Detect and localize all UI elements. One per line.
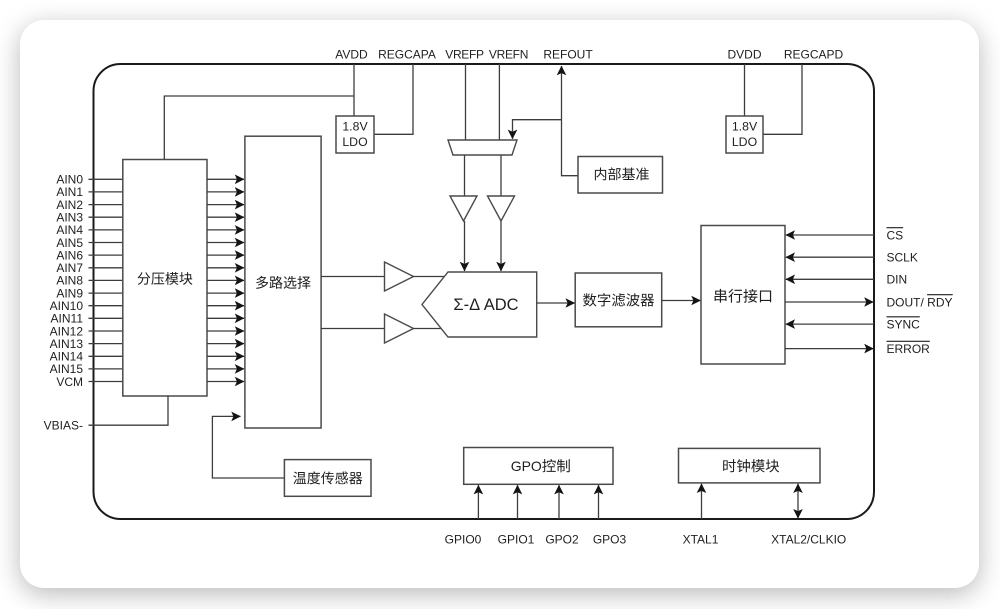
wire divider to mux AIN1 <box>207 191 244 193</box>
wire divider to mux AIN2 <box>207 204 244 206</box>
svg-text:DVDD: DVDD <box>727 48 761 62</box>
wire AIN11 input <box>89 317 123 319</box>
wire VBIAS- to divider <box>89 396 169 425</box>
wire buffer A to ADC <box>464 221 466 271</box>
op-amp buffer B (triangle right) <box>385 314 414 343</box>
wire divider to mux AIN9 <box>207 292 244 294</box>
label serial interface 串行接口 <box>715 289 772 303</box>
wire divider to mux AIN10 <box>207 305 244 307</box>
wire AIN7 input <box>89 267 123 269</box>
label GPO control 控制 <box>542 459 569 472</box>
op-amp buffer A (triangle right) <box>385 262 414 291</box>
wire trapezoid to buffer B <box>500 155 502 196</box>
wire mux to op-amp A <box>321 276 384 278</box>
label digital filter 数字滤波器 <box>583 293 654 306</box>
wire AIN3 input <box>89 216 123 218</box>
wire divider to mux AIN15 <box>207 368 244 370</box>
label clock module 时钟模块 <box>723 459 779 472</box>
overline for RDY <box>927 294 953 296</box>
wire trapezoid to buffer A <box>464 155 466 196</box>
wire ADC to digital filter <box>537 302 575 304</box>
wire VCM input <box>89 381 123 383</box>
internal reference block <box>578 157 663 194</box>
wire divider to mux AIN5 <box>207 242 244 244</box>
wire GPIO0 into GPO control <box>477 485 479 519</box>
wire serial interface to DOUT/RDY pin <box>785 301 873 303</box>
wire buffer B to ADC <box>500 221 502 271</box>
wire REFOUT from internal reference <box>562 66 579 176</box>
wire AIN14 input <box>89 355 123 357</box>
overline for SYNC <box>887 316 920 318</box>
svg-text:LDO: LDO <box>732 135 757 149</box>
svg-text:VREFN: VREFN <box>489 48 528 62</box>
wire reference to buffer (arrow down) <box>513 120 562 139</box>
svg-text:Σ-Δ ADC: Σ-Δ ADC <box>453 296 518 314</box>
label temperature sensor 温度传感器 <box>293 471 362 484</box>
svg-text:VBIAS-: VBIAS- <box>44 419 83 433</box>
wire XTAL2/CLKIO bidirectional <box>797 484 799 518</box>
wire AIN8 input <box>89 279 123 281</box>
chip outline <box>94 64 875 519</box>
temperature sensor block 温度传感器 <box>284 460 371 497</box>
wire AIN12 input <box>89 330 123 332</box>
wire divider to mux AIN8 <box>207 279 244 281</box>
svg-text:CS: CS <box>887 228 904 242</box>
svg-text:DOUT/ RDY: DOUT/ RDY <box>887 295 953 309</box>
wire AIN15 input <box>89 368 123 370</box>
svg-text:VREFP: VREFP <box>445 48 484 62</box>
wire divider to mux AIN6 <box>207 254 244 256</box>
svg-text:VCM: VCM <box>56 375 83 389</box>
wire SCLK pin into serial interface <box>786 256 874 258</box>
svg-text:GPIO0: GPIO0 <box>445 533 482 547</box>
reference mux trapezoid <box>448 140 517 155</box>
wire divider to mux AIN0 <box>207 178 244 180</box>
wire mux to op-amp B <box>321 328 384 330</box>
wire VREFP pin to ref buffer <box>465 64 467 140</box>
wire divider to mux AIN14 <box>207 355 244 357</box>
wire AIN5 input <box>89 242 123 244</box>
wire AIN13 input <box>89 343 123 345</box>
wire DIN pin into serial interface <box>786 278 874 280</box>
svg-text:1.8V: 1.8V <box>342 120 368 134</box>
svg-text:GPO2: GPO2 <box>545 533 579 547</box>
svg-text:LDO: LDO <box>342 135 367 149</box>
overline for CS <box>887 227 904 229</box>
wire AIN2 input <box>89 204 123 206</box>
reference buffer B (triangle down) <box>488 196 515 221</box>
wire divider to mux AIN7 <box>207 267 244 269</box>
wire divider to mux AIN12 <box>207 330 244 332</box>
reference buffer A (triangle down) <box>450 196 477 221</box>
wire divider to mux AIN3 <box>207 216 244 218</box>
wire AIN0 input <box>89 178 123 180</box>
GPO control block GPO控制 <box>464 448 613 485</box>
wire serial interface to ERROR pin <box>785 348 873 350</box>
svg-text:XTAL2/CLKIO: XTAL2/CLKIO <box>771 533 846 547</box>
svg-text:SYNC: SYNC <box>887 317 921 331</box>
wire REGCAPD pin to LDO U2 <box>763 64 802 134</box>
overline for ERROR <box>887 340 930 342</box>
wire GPIO1 into GPO control <box>517 485 519 519</box>
wire digital filter to serial interface <box>662 300 701 302</box>
wire GPO2 into GPO control <box>558 485 560 519</box>
label multiplexer 多路选择 <box>256 276 311 289</box>
wire AIN10 input <box>89 305 123 307</box>
serial interface block 串行接口 <box>701 226 785 365</box>
wire VREFN pin to ref buffer <box>498 64 500 140</box>
svg-text:ERROR: ERROR <box>887 342 931 356</box>
label voltage divider 分压模块 <box>138 272 193 285</box>
LDO regulator U1 (analog 1.8V LDO) <box>336 116 374 153</box>
wire CS pin into serial interface <box>786 234 874 236</box>
sigma-delta ADC block <box>422 272 537 337</box>
wire divider to mux AIN13 <box>207 343 244 345</box>
wire AIN1 input <box>89 191 123 193</box>
wire AIN6 input <box>89 254 123 256</box>
voltage divider block 分压模块 <box>123 160 207 397</box>
svg-text:AVDD: AVDD <box>335 48 368 62</box>
svg-text:SCLK: SCLK <box>887 251 918 265</box>
wire divider to mux VCM <box>207 381 244 383</box>
wire XTAL1 into clock module <box>701 484 703 519</box>
label internal reference 内部基准 <box>595 167 649 180</box>
wire DVDD pin to LDO U2 <box>744 64 746 116</box>
svg-text:XTAL1: XTAL1 <box>683 533 719 547</box>
wire op-amp B to ADC <box>414 328 442 330</box>
wire REGCAPA pin to LDO U1 <box>374 64 413 134</box>
svg-text:GPIO1: GPIO1 <box>498 533 535 547</box>
clock module block 时钟模块 <box>679 448 821 483</box>
svg-text:GPO3: GPO3 <box>593 533 627 547</box>
wire AIN4 input <box>89 229 123 231</box>
svg-text:REGCAPD: REGCAPD <box>784 48 844 62</box>
digital filter block 数字滤波器 <box>575 273 662 327</box>
svg-text:GPO: GPO <box>511 458 542 474</box>
wire SYNC pin into serial interface <box>786 323 874 325</box>
wire divider to mux AIN11 <box>207 317 244 319</box>
multiplexer block 多路选择 <box>245 136 321 428</box>
wire GPO3 into GPO control <box>598 485 600 519</box>
wire AVDD pin to LDO U1 <box>353 64 355 116</box>
wire AIN9 input <box>89 292 123 294</box>
wire AVDD branch to divider <box>164 96 354 160</box>
svg-text:DIN: DIN <box>887 273 908 287</box>
wire temperature sensor to mux <box>212 416 284 478</box>
wire op-amp A to ADC <box>414 276 445 278</box>
svg-text:REFOUT: REFOUT <box>543 48 593 62</box>
svg-text:REGCAPA: REGCAPA <box>378 48 436 62</box>
svg-text:1.8V: 1.8V <box>732 120 758 134</box>
LDO regulator U2 (digital 1.8V LDO) <box>726 116 763 153</box>
wire divider to mux AIN4 <box>207 229 244 231</box>
